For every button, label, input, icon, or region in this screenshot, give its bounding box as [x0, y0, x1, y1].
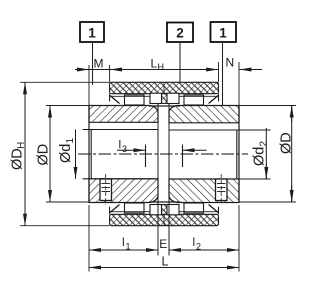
svg-text:1: 1 [65, 138, 76, 144]
set screw left hub [100, 174, 112, 205]
svg-text:H: H [16, 142, 27, 149]
dimension phi D_H [10, 82, 110, 225]
hub inner faces / E extension lines [158, 104, 169, 256]
svg-text:l: l [193, 235, 196, 249]
bore chamfer line left hub face [90, 130, 92, 179]
svg-text:ØD: ØD [36, 144, 52, 166]
svg-text:L: L [151, 57, 158, 71]
dimension N [226, 56, 263, 70]
callout box 1 right [211, 22, 237, 42]
bore edge lines [83, 130, 271, 180]
extension line sleeve left edge [109, 65, 111, 82]
hub left upper section (part 1) [89, 106, 158, 123]
set screw right hub [216, 174, 228, 205]
dimension E [159, 237, 181, 251]
svg-text:1: 1 [219, 26, 227, 41]
hub right upper section (part 1) [169, 106, 239, 123]
bore chamfer line right hub face [236, 130, 238, 179]
dimension phi D right [239, 106, 296, 203]
leader line box1 left [92, 42, 94, 85]
svg-text:2: 2 [259, 141, 270, 147]
hub left lower section [89, 179, 158, 203]
dimension L_H [110, 57, 219, 73]
svg-text:2: 2 [196, 242, 201, 252]
svg-text:ØD: ØD [10, 148, 26, 170]
rubber center dip bottom [162, 205, 168, 215]
dimension phi d2 [252, 128, 270, 179]
svg-text:N: N [226, 56, 235, 70]
svg-text:E: E [159, 237, 167, 251]
callout box 1 left [80, 22, 104, 42]
dimension phi D left [36, 106, 90, 203]
svg-text:Ød: Ød [252, 147, 268, 166]
dimension phi d1 [58, 130, 76, 179]
centerline [78, 153, 248, 155]
shaft end line left (l3) [145, 145, 147, 168]
svg-text:M: M [94, 57, 104, 71]
dimension L [89, 255, 239, 269]
extension line hub left face [88, 65, 90, 272]
svg-text:H: H [158, 62, 165, 72]
svg-text:l: l [119, 138, 122, 152]
rubber sleeve bottom band (part 2) [110, 207, 219, 226]
shaft end line right (l3) [182, 145, 184, 168]
rubber center dip top [162, 94, 168, 104]
dimension M [75, 57, 110, 71]
svg-text:l: l [122, 235, 125, 249]
leader line box1 right [222, 42, 224, 106]
svg-text:1: 1 [88, 26, 96, 41]
hub right lower section [169, 179, 239, 203]
svg-text:3: 3 [122, 144, 127, 154]
svg-text:2: 2 [176, 26, 184, 41]
rubber sleeve top band (part 2) [110, 82, 219, 101]
dimension l2 [169, 235, 239, 252]
svg-text:1: 1 [126, 242, 131, 252]
leader line box2 [179, 42, 181, 82]
dimension l1 [89, 235, 158, 252]
extension line hub right face [238, 62, 240, 272]
dimension l3 [117, 138, 207, 155]
clamp ring zone bottom [110, 202, 219, 215]
svg-text:L: L [162, 255, 169, 269]
extension line sleeve right edge [218, 62, 220, 82]
svg-text:Ød: Ød [58, 144, 74, 163]
clamp ring zone top [110, 93, 219, 106]
svg-text:ØD: ØD [279, 132, 295, 154]
callout box 2 [167, 23, 193, 43]
